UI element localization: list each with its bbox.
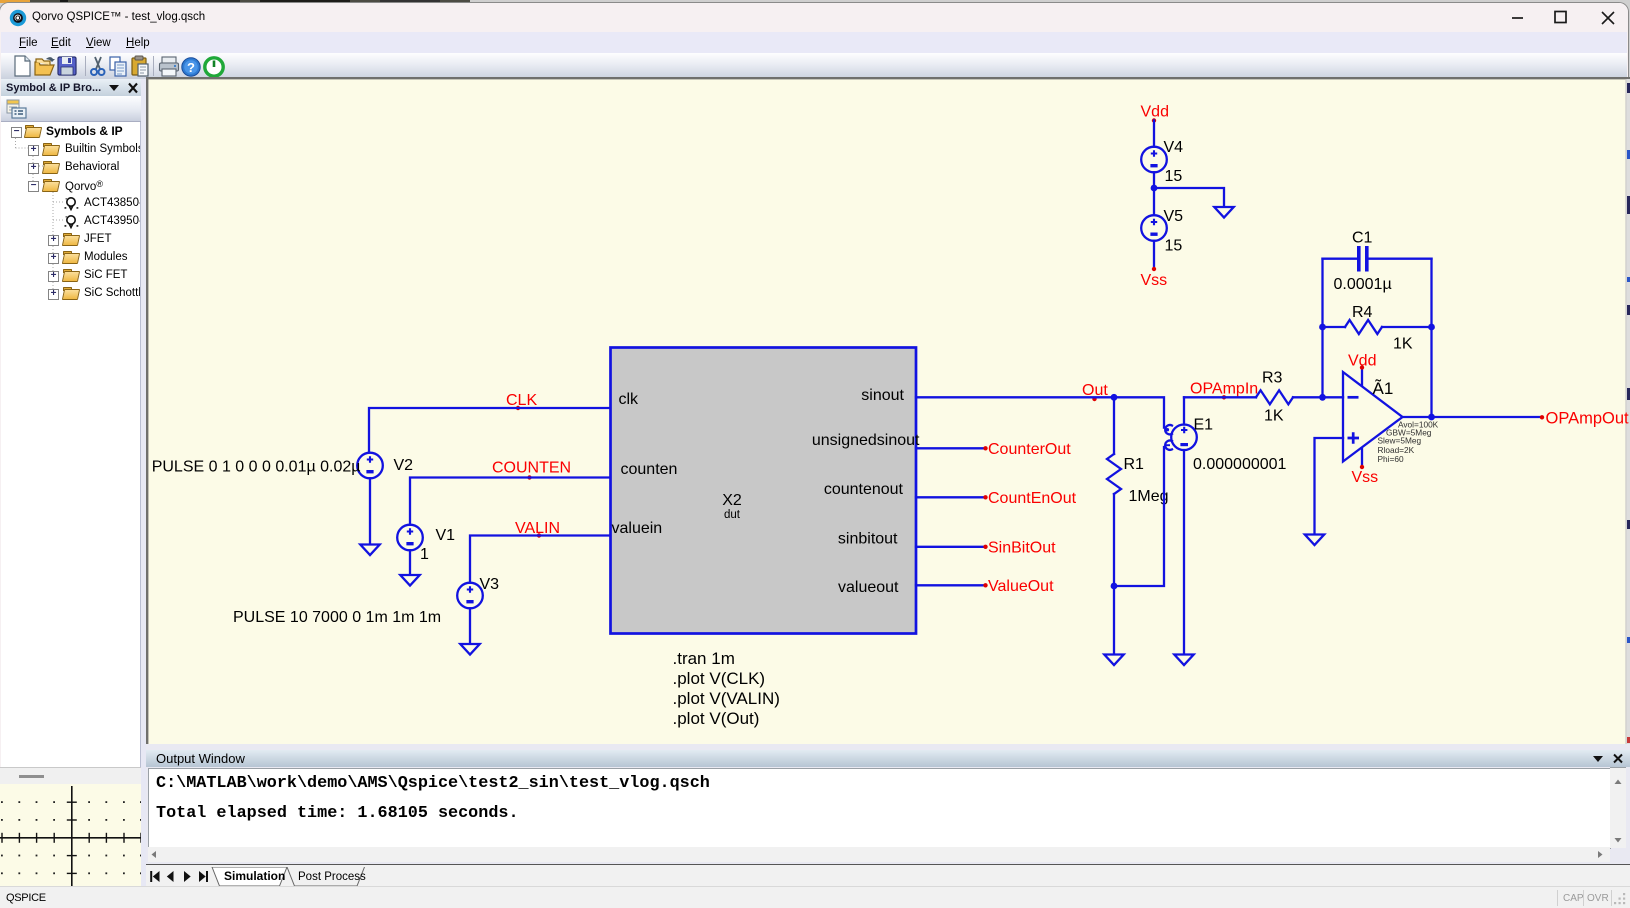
voltage source V4: [1141, 147, 1167, 173]
svg-text:E1: E1: [1194, 417, 1214, 434]
wire: [1153, 241, 1155, 269]
svg-text:R1: R1: [1124, 456, 1145, 473]
window buttons: [1500, 3, 1628, 32]
wire: [1321, 259, 1323, 398]
ground: [1104, 655, 1123, 666]
open: [35, 57, 55, 75]
wire: [1114, 447, 1164, 586]
svg-text:Ã1: Ã1: [1373, 379, 1394, 398]
left column: [0, 78, 146, 908]
svg-text:clk: clk: [619, 391, 640, 408]
cut: [91, 57, 105, 75]
svg-text:15: 15: [1165, 238, 1183, 255]
run/power: [205, 57, 223, 75]
title bar: [0, 3, 1628, 32]
svg-text:counten: counten: [621, 461, 678, 478]
svg-text:PULSE 0 1 0 0 0 0.01µ 0.02µ: PULSE 0 1 0 0 0 0.01µ 0.02µ: [152, 459, 361, 476]
wire: [1153, 121, 1155, 147]
pin Vdd of A1: [1361, 368, 1363, 385]
svg-text:SinBitOut: SinBitOut: [988, 540, 1056, 557]
paste: [132, 56, 148, 76]
toolbar: [1, 53, 1627, 80]
ground: [400, 575, 419, 586]
output window: [146, 744, 1630, 885]
resistor R3: [1256, 390, 1293, 404]
resistor R4: [1345, 320, 1382, 334]
ground: [360, 545, 379, 556]
print: [160, 57, 179, 76]
svg-text:Slew=5Meg: Slew=5Meg: [1378, 436, 1422, 446]
svg-text:0.0001µ: 0.0001µ: [1334, 276, 1392, 293]
status bar: [0, 886, 1630, 908]
voltage source V5: [1141, 215, 1167, 241]
copy: [110, 57, 126, 76]
svg-text:OPAmpOut: OPAmpOut: [1546, 410, 1630, 428]
voltage source V3: [457, 583, 483, 609]
resistor R1: [1107, 454, 1121, 494]
svg-text:1K: 1K: [1264, 408, 1284, 425]
svg-text:R4: R4: [1352, 304, 1373, 321]
svg-text:valuein: valuein: [612, 520, 663, 537]
menu bar: [1, 32, 1627, 53]
wire: [470, 536, 610, 583]
wire: [1403, 416, 1543, 418]
wire: [1323, 326, 1432, 328]
capacitor C1: [1359, 246, 1367, 272]
dut block X2: [611, 348, 917, 634]
svg-text:Post Process: Post Process: [298, 871, 366, 883]
svg-text:CounterOut: CounterOut: [988, 441, 1071, 458]
svg-text:Vdd: Vdd: [1141, 104, 1169, 121]
background sliver of window behind, top edge: [0, 0, 1630, 3]
svg-text:valueout: valueout: [838, 579, 899, 596]
help: [182, 57, 200, 75]
svg-text:C1: C1: [1352, 230, 1373, 247]
svg-text:15: 15: [1165, 168, 1183, 185]
wire: [1153, 172, 1155, 215]
save: [58, 57, 76, 75]
svg-text:V4: V4: [1164, 139, 1184, 156]
wire: [916, 584, 986, 586]
ground: [460, 644, 479, 655]
svg-text:sinbitout: sinbitout: [838, 531, 898, 548]
ground: [1174, 655, 1193, 666]
svg-text:Phi=60: Phi=60: [1378, 454, 1404, 464]
wire: [916, 546, 986, 548]
vcvs E1: [1171, 425, 1197, 451]
wire: [1183, 397, 1185, 424]
svg-text:countenout: countenout: [824, 481, 904, 498]
svg-text:unsignedsinout: unsignedsinout: [812, 432, 920, 449]
wire: [916, 496, 986, 498]
junction: [1151, 185, 1158, 192]
svg-text:CLK: CLK: [506, 392, 537, 409]
svg-text:.tran 1m: .tran 1m: [673, 649, 735, 668]
wire: [1184, 396, 1256, 398]
junction: [1319, 324, 1326, 331]
svg-text:V5: V5: [1164, 208, 1184, 225]
svg-text:.plot V(VALIN): .plot V(VALIN): [673, 689, 780, 708]
svg-text:CountEnOut: CountEnOut: [988, 490, 1077, 507]
wire: [369, 408, 610, 453]
wire: [410, 478, 610, 525]
new: [15, 56, 30, 76]
svg-text:1Meg: 1Meg: [1129, 488, 1169, 505]
svg-text:COUNTEN: COUNTEN: [492, 460, 571, 477]
svg-text:X2: X2: [722, 492, 742, 509]
svg-text:R3: R3: [1262, 370, 1283, 387]
svg-text:PULSE 10 7000 0 1m 1m 1m: PULSE 10 7000 0 1m 1m 1m: [233, 609, 441, 626]
wire: [1183, 450, 1185, 654]
svg-text:Vdd: Vdd: [1348, 353, 1376, 370]
svg-text:V3: V3: [480, 576, 500, 593]
junction: [1428, 414, 1435, 421]
pin Vss of A1: [1361, 449, 1363, 467]
svg-text:ValueOut: ValueOut: [988, 578, 1054, 595]
wire: [916, 447, 986, 449]
wire: [1430, 259, 1432, 417]
wire: [1323, 258, 1432, 260]
svg-text:Simulation: Simulation: [224, 869, 285, 883]
svg-text:?: ?: [187, 60, 195, 75]
voltage source V2: [357, 453, 383, 479]
wire: [1113, 397, 1115, 653]
svg-text:dut: dut: [724, 509, 741, 521]
svg-text:.plot V(Out): .plot V(Out): [673, 709, 760, 728]
schematic canvas: [146, 77, 1630, 744]
svg-text:.plot V(CLK): .plot V(CLK): [673, 669, 766, 688]
wire: [916, 397, 1164, 427]
svg-text:Vss: Vss: [1352, 469, 1379, 486]
svg-text:1: 1: [420, 546, 429, 563]
voltage source V1: [397, 525, 423, 551]
Qorvo logo: [7, 7, 29, 29]
wire: [409, 550, 411, 574]
junction: [1111, 394, 1118, 401]
junction: [1428, 324, 1435, 331]
wire: [1315, 438, 1344, 534]
svg-text:sinout: sinout: [861, 387, 904, 404]
wire: [1154, 188, 1224, 206]
svg-text:Vss: Vss: [1141, 272, 1168, 289]
svg-text:V2: V2: [394, 457, 414, 474]
svg-text:OPAmpIn: OPAmpIn: [1190, 381, 1258, 398]
svg-text:0.000000001: 0.000000001: [1193, 456, 1287, 473]
svg-text:1K: 1K: [1393, 336, 1413, 353]
wire: [1293, 396, 1343, 398]
wire: [369, 478, 371, 543]
svg-text:V1: V1: [436, 527, 456, 544]
ground: [1305, 535, 1324, 546]
ground: [1214, 207, 1233, 218]
op-amp A1: [1343, 372, 1403, 462]
junction: [1319, 394, 1326, 401]
junction: [1111, 583, 1118, 590]
svg-text:Q: Q: [15, 15, 20, 22]
wire: [469, 608, 471, 643]
